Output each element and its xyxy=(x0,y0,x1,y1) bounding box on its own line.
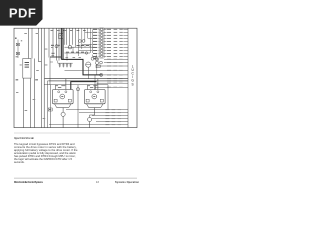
svg-text:seconds.: seconds. xyxy=(14,160,25,164)
svg-text:S: S xyxy=(132,82,134,86)
svg-text:MicroController Control System: MicroController Control Systems xyxy=(14,181,44,184)
svg-text:Systems Operation: Systems Operation xyxy=(115,181,139,184)
svg-text:PDF: PDF xyxy=(9,6,36,21)
svg-text:Figure 3 Circuit Schematic: Figure 3 Circuit Schematic xyxy=(14,137,35,140)
